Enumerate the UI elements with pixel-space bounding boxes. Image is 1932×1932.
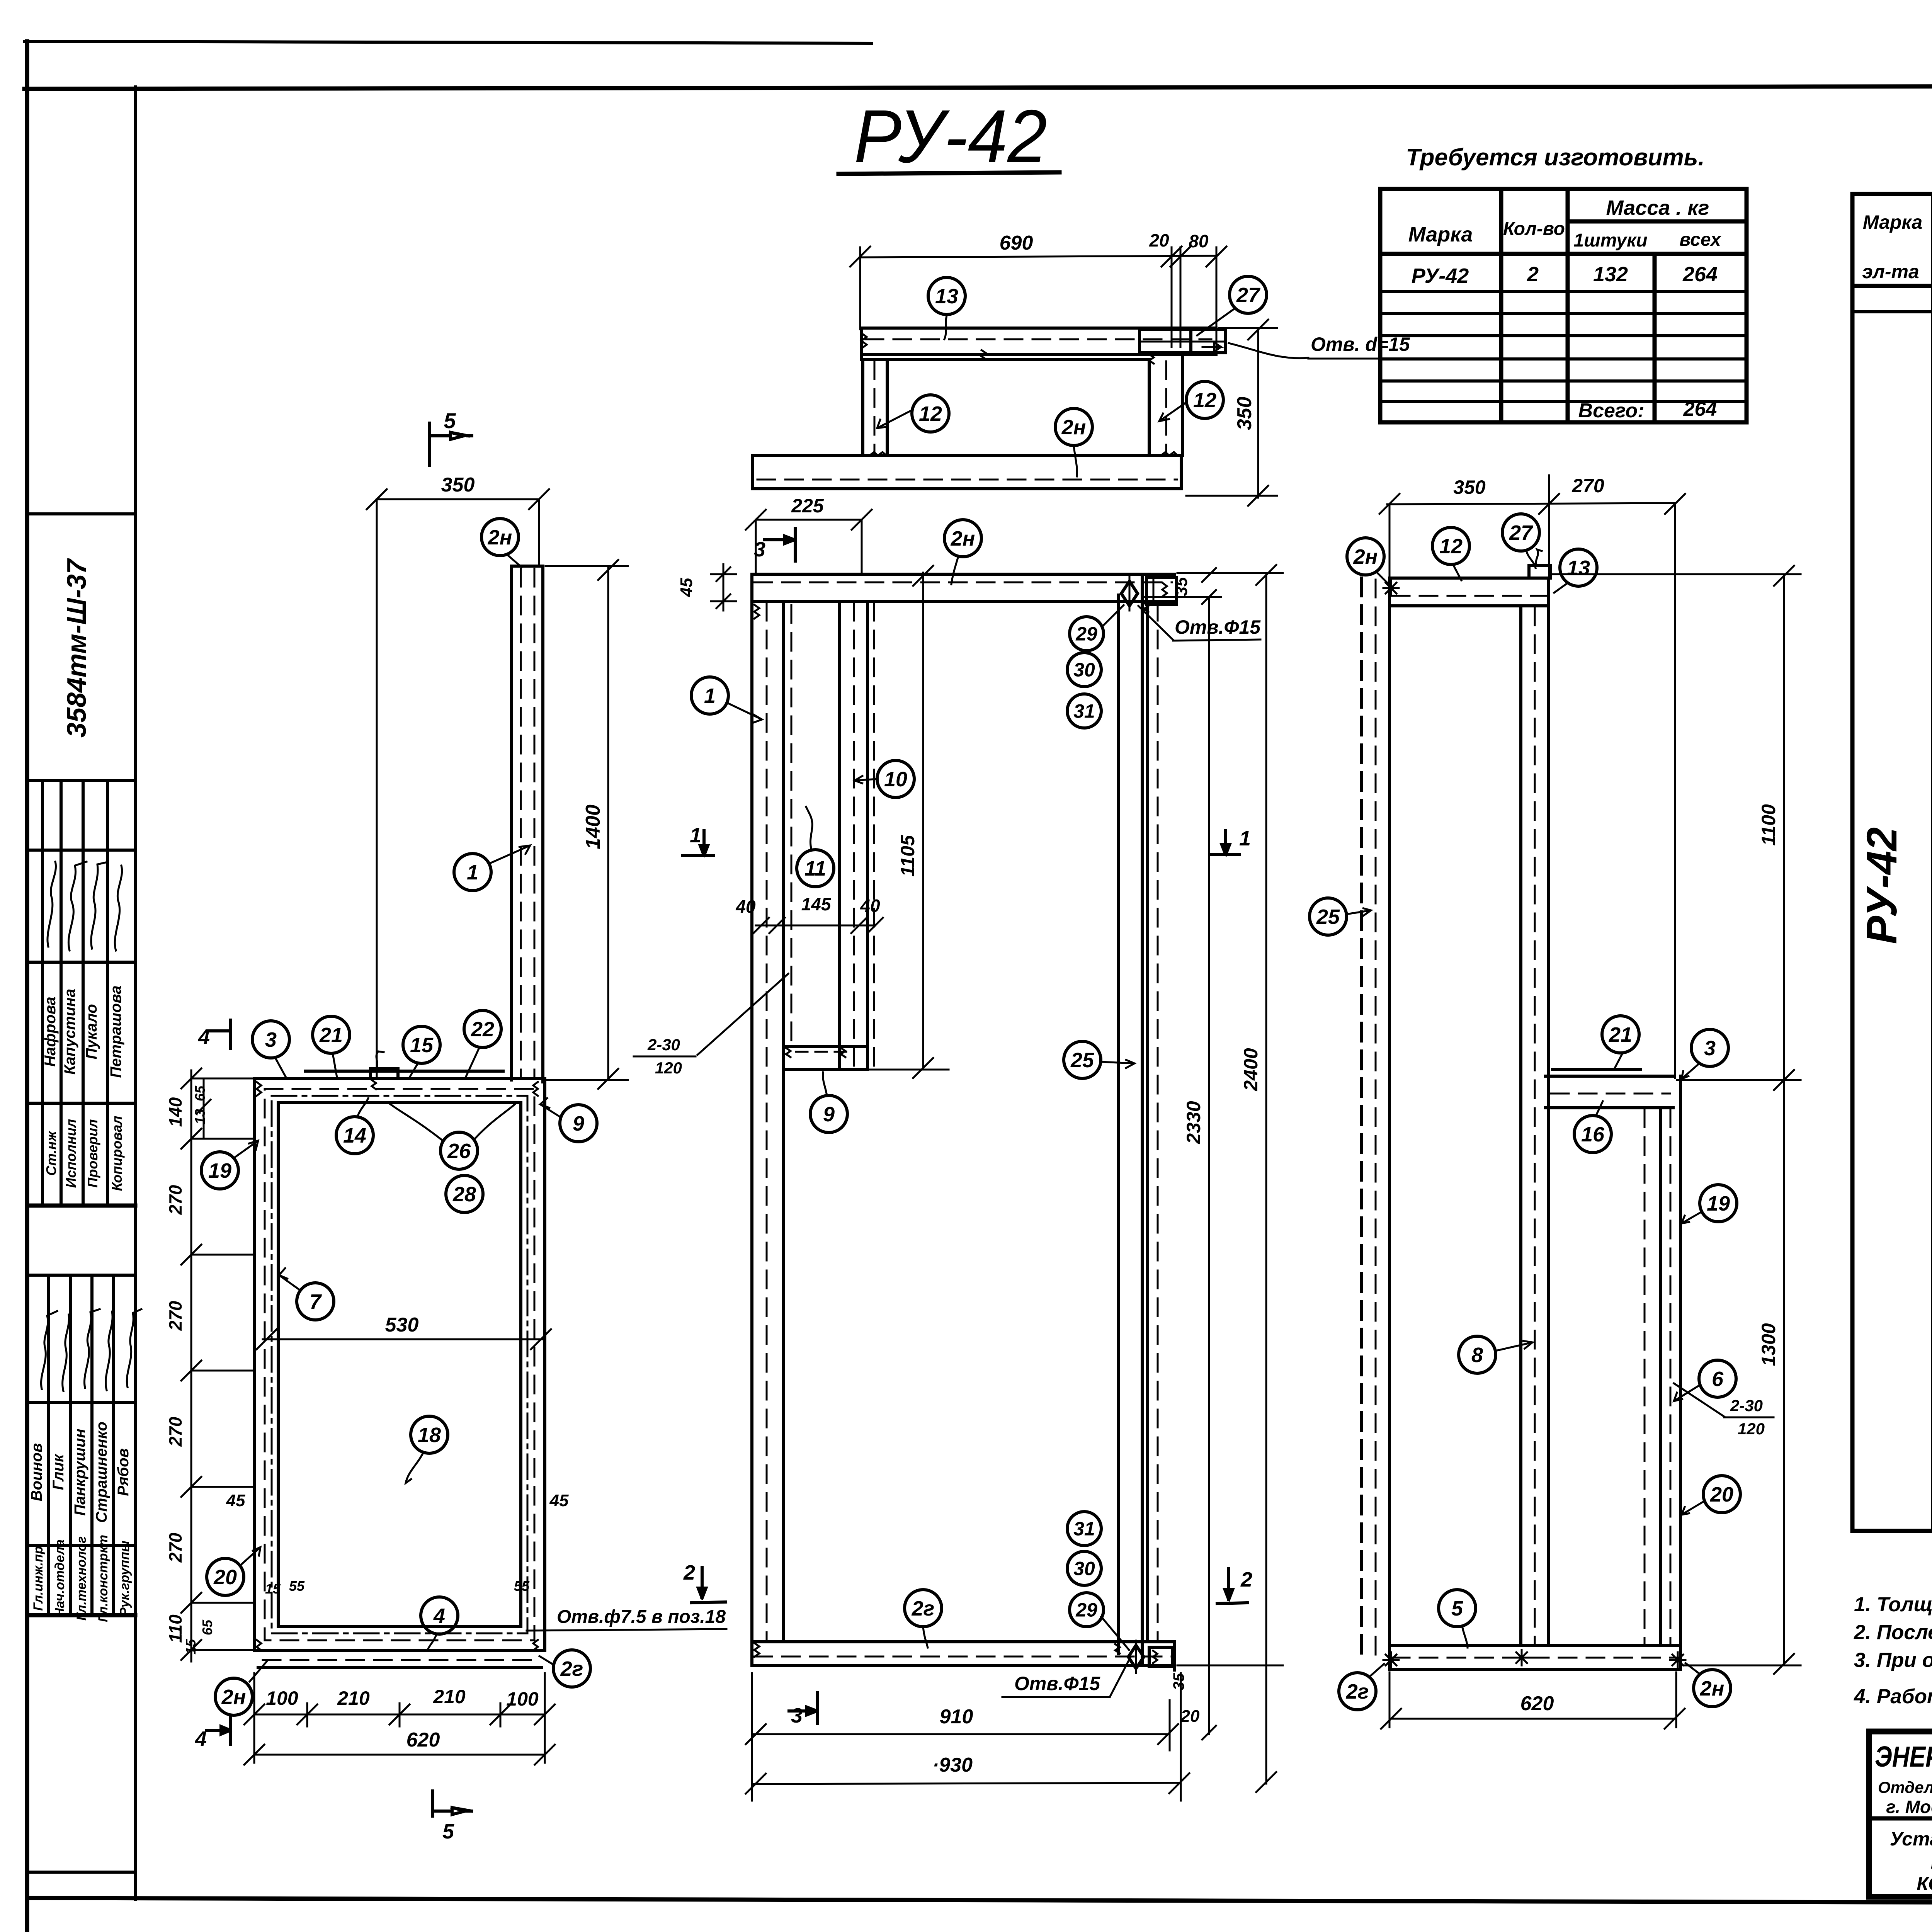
right view: label circle 2н bottom	[1694, 1670, 1731, 1707]
svg-text:12: 12	[1439, 535, 1463, 558]
middle view: weld note leader	[697, 974, 788, 1055]
svg-text:100: 100	[266, 1687, 298, 1709]
svg-text:40: 40	[860, 896, 880, 916]
svg-text:1. Толщина сварных швов: 1. Толщина сварных швов 5мм . Электроды …	[1854, 1593, 1932, 1616]
left view: label circle 2г	[553, 1650, 590, 1687]
middle view: label circles 31/30/29 bottom	[1067, 1512, 1101, 1546]
svg-text:Отв.Ф15: Отв.Ф15	[1014, 1673, 1100, 1694]
left view: label circle 1	[454, 854, 491, 891]
left stamp: upper signature table frame	[27, 849, 135, 852]
right view: dimension 620 bottom	[1389, 1718, 1676, 1720]
svg-text:20: 20	[1710, 1483, 1733, 1506]
left stamp: signature squiggle 5	[41, 1311, 57, 1389]
svg-text:270: 270	[1571, 475, 1604, 497]
left view: leader 2г	[539, 1656, 553, 1665]
right view: leader 3	[1682, 1063, 1699, 1079]
svg-text:20: 20	[213, 1566, 237, 1589]
right view: weld stars	[1383, 580, 1399, 596]
svg-text:264: 264	[1682, 263, 1718, 286]
middle view: bottom member top edge	[752, 1640, 1174, 1643]
right view: leader 25	[1346, 908, 1371, 916]
svg-text:1100: 1100	[1758, 804, 1779, 846]
svg-text:270: 270	[165, 1417, 185, 1447]
svg-text:110: 110	[165, 1614, 185, 1643]
svg-text:2н: 2н	[1061, 416, 1086, 439]
top view: hole note underline	[1308, 358, 1432, 360]
top view: leader for 12 left	[877, 410, 912, 428]
left stamp: signature squiggle 1	[48, 862, 56, 947]
left view: label circle 14	[336, 1117, 373, 1154]
svg-text:Исполнил: Исполнил	[63, 1119, 79, 1188]
middle view: leader 2н top	[951, 556, 958, 584]
right view: top dimension line 350/270	[1387, 503, 1675, 504]
middle view: top member bottom edge	[752, 600, 1174, 603]
right view: label circle 6	[1699, 1360, 1736, 1397]
svg-text:100: 100	[506, 1688, 539, 1710]
page frame bottom border	[27, 1898, 1932, 1904]
top view: beam pos13 top edge	[861, 327, 1216, 330]
left margin inner vertical line	[134, 87, 137, 1900]
right view: leader 19	[1682, 1212, 1702, 1223]
top view: leader for 12 right	[1159, 403, 1186, 421]
top view: label circle 12 right	[1186, 381, 1223, 418]
left view: label circle 26	[440, 1132, 478, 1169]
right view: member pos8 left edge	[1519, 606, 1522, 1646]
svg-text:КС86 - 50 -11У1.: КС86 - 50 -11У1.	[1917, 1873, 1932, 1895]
left view: dim 350 extension lines	[376, 499, 378, 1076]
svg-text:2г: 2г	[560, 1657, 583, 1680]
title block outer frame	[1869, 1731, 1932, 1897]
svg-text:Гл.констркт: Гл.констркт	[96, 1535, 111, 1622]
svg-text:2-30: 2-30	[1730, 1396, 1763, 1415]
middle view: leader 2г	[923, 1627, 928, 1648]
middle view: leader 29 bottom	[1101, 1617, 1129, 1650]
svg-text:ЭНЕРГОСЕТЬПРОЕКТ: ЭНЕРГОСЕТЬПРОЕКТ	[1875, 1740, 1932, 1773]
right view: dimension 1100 (rotated)	[1783, 574, 1785, 1665]
top view: dim extension lines	[859, 247, 861, 329]
title block left column divider	[1869, 1816, 1932, 1821]
svg-text:8: 8	[1471, 1344, 1483, 1367]
page outer border top edge line	[24, 41, 871, 43]
top view: left leg pos12 edges	[861, 359, 864, 456]
svg-text:5: 5	[442, 1820, 454, 1843]
middle view: dims 40/145/40	[756, 925, 875, 927]
middle view: top bolt diamond	[1121, 581, 1138, 606]
svg-text:40: 40	[735, 896, 756, 917]
right view: label circle 2н top	[1347, 538, 1384, 575]
right view: leader 2н top	[1376, 572, 1389, 584]
svg-text:14: 14	[343, 1124, 366, 1147]
right view: leader 21	[1614, 1053, 1623, 1069]
left view: leader 20	[240, 1547, 260, 1566]
svg-text:Всего:: Всего:	[1578, 400, 1645, 422]
right view: ledge top bar pos16 top edge	[1546, 1075, 1673, 1078]
drawing title underline	[838, 172, 1060, 174]
svg-text:2-30: 2-30	[647, 1036, 680, 1054]
left stamp: lower signature table column lines	[47, 1275, 50, 1615]
svg-text:Отделение Дальних передач: Отделение Дальних передач	[1878, 1778, 1932, 1796]
top view: base plate hidden line (dashed)	[757, 479, 1177, 481]
right view: top member top edge	[1389, 577, 1549, 580]
left view: label circle 9 right	[560, 1105, 597, 1142]
middle view: hole note leader bottom	[1110, 1658, 1130, 1697]
middle view: left member pos1 outer edge	[750, 574, 753, 1665]
middle view: dimension 930	[753, 1783, 1181, 1784]
svg-text:31: 31	[1073, 1518, 1095, 1540]
top view: leader for 2н	[1074, 446, 1077, 476]
left view: bottom flange line	[258, 1666, 542, 1669]
svg-text:·930: ·930	[932, 1754, 973, 1776]
middle view: label circle 2н top	[944, 520, 981, 557]
svg-text:Гл.технолог: Гл.технолог	[74, 1536, 89, 1621]
middle view: label circle 25	[1064, 1041, 1101, 1078]
top view: dim 350 extension lines	[1219, 327, 1277, 329]
svg-text:2: 2	[683, 1561, 695, 1584]
left view: bottom chain dimension line	[254, 1714, 545, 1716]
svg-text:2г: 2г	[912, 1597, 935, 1620]
right view: right member pos19 left edge	[1659, 1108, 1662, 1646]
left view: dim 1400 extension lines	[546, 565, 628, 567]
left view: frame inner rectangle	[278, 1102, 521, 1627]
svg-text:9: 9	[823, 1103, 835, 1126]
spec table outer frame	[1852, 194, 1932, 1531]
svg-text:13: 13	[935, 285, 958, 308]
left view: leader 4	[428, 1634, 437, 1649]
left view: post pos1 right edge	[541, 566, 544, 1082]
middle view: leader 29 top	[1102, 605, 1124, 627]
left view: frame outer rectangle	[254, 1078, 545, 1651]
svg-text:21: 21	[319, 1024, 343, 1047]
svg-text:4. Работать совместно с: 4. Работать совместно с листом КМ-Ш-23.	[1854, 1685, 1932, 1708]
svg-text:5: 5	[444, 408, 456, 433]
svg-text:Копировал: Копировал	[109, 1116, 125, 1191]
svg-text:15: 15	[183, 1639, 199, 1655]
middle view: label circle 2г bottom	[905, 1590, 942, 1627]
svg-text:910: 910	[940, 1706, 973, 1728]
right view: ledge top bar bottom edge	[1546, 1106, 1673, 1109]
middle view: dimension 2330 (rotated)	[1208, 597, 1210, 1734]
svg-text:Отв.Ф15: Отв.Ф15	[1175, 616, 1261, 638]
left view: weld marks	[257, 1082, 261, 1096]
middle view: bottom bolt diamond	[1128, 1645, 1144, 1668]
right view: frame bottom edge	[1389, 1668, 1680, 1671]
svg-text:Кол-во: Кол-во	[1503, 219, 1565, 239]
right view: label circle 25	[1310, 898, 1347, 935]
svg-text:Глик: Глик	[50, 1454, 67, 1490]
top view: beam pos13 hidden edge (dashed)	[866, 338, 1211, 340]
right view: member pos8 right edge	[1547, 578, 1550, 1646]
right view: leader 8	[1495, 1341, 1532, 1351]
svg-text:210: 210	[433, 1686, 466, 1708]
svg-text:19: 19	[208, 1159, 231, 1182]
svg-text:45: 45	[677, 578, 696, 597]
left view: top strap line pos21/22	[305, 1070, 503, 1073]
svg-text:13: 13	[1567, 556, 1590, 580]
middle view: member pos10 right edge	[866, 601, 869, 1070]
top view: label circle 27	[1230, 276, 1267, 313]
svg-text:21: 21	[1609, 1023, 1632, 1046]
svg-text:2. После установки марки: 2. После установки марки поз 25 убрать.	[1854, 1621, 1932, 1644]
svg-text:1300: 1300	[1758, 1323, 1779, 1366]
svg-text:20: 20	[1149, 230, 1169, 250]
svg-text:55: 55	[514, 1578, 530, 1594]
svg-text:1: 1	[690, 824, 701, 847]
middle view: dim 35 top right	[1142, 596, 1221, 598]
left view: label circle 2н top	[481, 519, 519, 556]
svg-text:2330: 2330	[1183, 1101, 1204, 1144]
top view: right leg pos12 edges	[1148, 359, 1151, 456]
svg-text:28: 28	[452, 1183, 476, 1206]
left view: leader 18	[406, 1452, 423, 1483]
svg-text:12: 12	[919, 402, 942, 425]
svg-text:1: 1	[704, 684, 716, 707]
middle view: top-right hole plate	[1146, 577, 1177, 604]
middle view: label circle 10	[877, 760, 914, 798]
middle view: leader 25	[1101, 1060, 1134, 1068]
middle view: dimension 1105 (rotated)	[922, 573, 924, 1070]
right view: top member bottom edge	[1389, 604, 1549, 607]
right view: leader 12 top	[1453, 564, 1461, 580]
middle view: member pos10 left edge	[838, 601, 841, 1070]
svg-text:2н: 2н	[221, 1685, 246, 1709]
svg-text:25: 25	[1316, 905, 1340, 929]
right view: leader 2г	[1371, 1664, 1384, 1675]
svg-text:29: 29	[1075, 1599, 1097, 1621]
svg-text:270: 270	[165, 1185, 185, 1215]
middle view: brace pos25 left edge	[1117, 595, 1120, 1654]
svg-text:Воинов: Воинов	[28, 1443, 45, 1502]
svg-text:18: 18	[418, 1423, 441, 1447]
middle view: frame top edge	[752, 573, 1174, 576]
manufacture table outer frame	[1380, 189, 1747, 422]
manufacture table column lines	[1499, 189, 1503, 422]
right view: leader 5	[1462, 1626, 1468, 1648]
right view: brace pos25 inner hidden edge	[1375, 580, 1377, 1657]
left stamp: bottom closing line	[27, 1871, 135, 1874]
top view: left leg pos12 hidden line	[874, 361, 876, 454]
manufacture table row lines	[1380, 290, 1747, 293]
right view: dim extension lines right	[1552, 573, 1801, 575]
top view: bracket pos27 inner lines	[1139, 341, 1226, 343]
svg-text:всех: всех	[1679, 230, 1722, 250]
middle view: bottom right hole plate	[1149, 1647, 1172, 1666]
svg-text:2400: 2400	[1240, 1048, 1262, 1091]
svg-text:Капустина: Капустина	[61, 989, 78, 1075]
right view: ledge bar hidden line	[1551, 1093, 1670, 1095]
svg-text:30: 30	[1073, 1558, 1095, 1580]
top view: dimension line 690/20/80	[860, 256, 1216, 257]
svg-text:690: 690	[1000, 232, 1033, 254]
svg-text:эл-та: эл-та	[1862, 261, 1919, 282]
svg-text:350: 350	[1453, 476, 1486, 498]
left view: leader 14	[357, 1098, 368, 1117]
left view: label circle 28	[446, 1175, 483, 1213]
svg-text:140: 140	[165, 1097, 185, 1127]
svg-text:264: 264	[1683, 398, 1717, 420]
right view: leader 27	[1526, 550, 1536, 568]
svg-text:1105: 1105	[897, 835, 918, 877]
left view: leader 2н top	[507, 554, 522, 567]
svg-text:270: 270	[165, 1301, 185, 1331]
svg-text:350: 350	[441, 474, 475, 496]
svg-text:31: 31	[1073, 701, 1095, 722]
top view: beam lower chord line	[865, 358, 1148, 361]
right view: label circle 16	[1574, 1116, 1611, 1153]
middle view: top member hidden line	[754, 582, 1172, 583]
right view: brace pos25 outer hidden edge	[1360, 578, 1363, 1658]
svg-text:65: 65	[192, 1085, 208, 1101]
svg-text:Пукало: Пукало	[83, 1004, 100, 1059]
right view: frame left edge	[1388, 578, 1391, 1669]
svg-text:РУ-42: РУ-42	[1412, 264, 1469, 287]
middle view: weld marks	[754, 605, 759, 619]
svg-text:35: 35	[1170, 1673, 1187, 1690]
svg-text:16: 16	[1581, 1123, 1605, 1146]
svg-text:1штуки: 1штуки	[1573, 230, 1647, 251]
right view: label circle 8	[1459, 1336, 1496, 1373]
middle view: frame right chord inner edge	[1146, 601, 1149, 1642]
svg-text:6: 6	[1712, 1367, 1724, 1391]
left view: frame hidden rectangle (dashed)	[265, 1089, 534, 1640]
left view: leader 3	[275, 1058, 286, 1077]
top view: label circle 12 left	[912, 395, 949, 432]
svg-text:3: 3	[265, 1028, 277, 1051]
svg-text:3584тм-Ш-37: 3584тм-Ш-37	[61, 558, 92, 738]
manufacture table header lines	[1568, 219, 1747, 224]
right view: label circle 5	[1439, 1590, 1476, 1627]
svg-text:10: 10	[884, 768, 907, 791]
svg-text:2г: 2г	[1346, 1680, 1369, 1703]
left view: label circle 2н bottom	[215, 1678, 252, 1715]
left view: hole note leader underline	[527, 1629, 726, 1631]
svg-text:55: 55	[289, 1578, 305, 1594]
middle view: member pos10 hidden line	[853, 603, 855, 1068]
svg-text:620: 620	[1520, 1692, 1554, 1715]
left stamp: signature squiggle 7	[84, 1309, 100, 1388]
svg-text:РУ-42: РУ-42	[1858, 827, 1906, 944]
svg-text:35: 35	[1172, 577, 1191, 596]
svg-text:РУ-42: РУ-42	[854, 94, 1047, 179]
svg-text:29: 29	[1075, 623, 1097, 645]
right view: bottom member hidden line	[1392, 1657, 1678, 1659]
left stamp: signature squiggle 8	[106, 1311, 112, 1390]
svg-text:270: 270	[165, 1532, 185, 1563]
svg-text:Страшненко: Страшненко	[93, 1422, 110, 1523]
svg-text:Масса . кг: Масса . кг	[1606, 196, 1709, 219]
svg-text:Рябов: Рябов	[115, 1448, 132, 1496]
svg-text:Марка: Марка	[1408, 223, 1473, 246]
svg-text:1: 1	[467, 861, 478, 884]
middle view: dimension 2400 (rotated)	[1265, 573, 1267, 1784]
middle view: bottom member hidden line	[754, 1656, 1172, 1658]
svg-text:120: 120	[655, 1059, 682, 1077]
left view: leader 22	[466, 1047, 480, 1077]
left view: post pos1 left edge	[510, 566, 513, 1080]
svg-text:350: 350	[1233, 397, 1256, 430]
top view: bracket arrow mark	[1202, 342, 1221, 352]
left view: label circle 21	[313, 1016, 350, 1053]
middle view: label circle 11	[797, 850, 834, 887]
middle view: dim 225 extension lines	[755, 520, 757, 573]
left stamp: upper signature table column lines	[41, 781, 44, 1206]
svg-text:2н: 2н	[488, 526, 512, 549]
svg-text:Проверил: Проверил	[85, 1119, 100, 1187]
svg-text:80: 80	[1189, 231, 1209, 251]
svg-text:Отв.ф7.5 в поз.18: Отв.ф7.5 в поз.18	[557, 1607, 726, 1627]
top view: beam pos13 left end cap	[860, 328, 863, 359]
left view: chain extension lines	[191, 1138, 255, 1140]
right view: leader 13	[1554, 583, 1568, 593]
left view: frame axis rectangle (dash-dot)	[272, 1096, 527, 1633]
svg-text:25: 25	[1070, 1049, 1094, 1072]
top view: weld marks	[861, 333, 867, 349]
svg-text:5: 5	[1451, 1597, 1463, 1620]
svg-text:2н: 2н	[951, 527, 975, 550]
svg-text:620: 620	[406, 1729, 440, 1751]
middle view: inner plate pos11 hidden line	[791, 605, 793, 1043]
svg-text:2н: 2н	[1353, 545, 1378, 568]
top view: hole note leader	[1229, 343, 1308, 358]
left view: bottom chain extension lines	[306, 1703, 308, 1726]
right view: top member hidden line	[1392, 595, 1546, 597]
left view: leader 19	[234, 1141, 258, 1158]
svg-text:г. Москва: г. Москва	[1886, 1797, 1932, 1817]
left view: section flag 5 top	[428, 423, 431, 466]
svg-text:65: 65	[199, 1619, 215, 1635]
left view: label circle 15	[403, 1026, 440, 1063]
svg-text:120: 120	[1738, 1420, 1765, 1438]
svg-text:7: 7	[310, 1290, 322, 1313]
svg-text:145: 145	[801, 894, 832, 914]
right view: label circle 27	[1502, 514, 1539, 551]
svg-text:15: 15	[410, 1034, 434, 1057]
top view: dimension 350 right side	[1257, 328, 1259, 498]
left view: left dimension chain line	[190, 1070, 192, 1662]
svg-text:210: 210	[337, 1687, 370, 1709]
left stamp: signature squiggle 2	[68, 862, 87, 951]
svg-text:4: 4	[198, 1026, 210, 1049]
svg-text:45: 45	[226, 1491, 245, 1510]
svg-text:Установка синхронных: Установка синхронных	[1890, 1828, 1932, 1850]
right view: label circle 20 right	[1703, 1476, 1740, 1513]
left view: label circle 19	[201, 1152, 238, 1189]
page frame top border	[24, 85, 1932, 89]
left view: leader 21	[333, 1053, 337, 1077]
svg-text:15: 15	[265, 1581, 281, 1597]
right view: leader 20	[1682, 1501, 1705, 1515]
left stamp: lower signature table frame	[27, 1274, 135, 1277]
svg-text:Марка: Марка	[1863, 211, 1922, 233]
right view: weld note leader right	[1674, 1383, 1724, 1417]
svg-text:Петрашова: Петрашова	[107, 985, 124, 1078]
left view: bottom hidden dashes	[263, 1659, 538, 1661]
right view: label circle 12 top	[1432, 527, 1469, 565]
middle view: right member hidden line	[1157, 603, 1159, 1640]
right view: ledge strap pos21 line	[1553, 1068, 1640, 1071]
svg-text:9: 9	[573, 1112, 584, 1135]
svg-text:26: 26	[447, 1139, 471, 1163]
svg-text:1400: 1400	[582, 804, 604, 849]
left stamp: signature squiggle 3	[91, 862, 107, 949]
right view: label circle 2г bottom	[1339, 1673, 1376, 1710]
middle view: member pos10 outer hidden line	[873, 603, 875, 1068]
right view: right member pos19 right edge	[1679, 1076, 1682, 1669]
right view: leader 2н	[1685, 1663, 1699, 1673]
page frame left border	[25, 41, 29, 1932]
svg-text:3: 3	[1704, 1037, 1716, 1060]
svg-text:Гл.инж.пр: Гл.инж.пр	[31, 1546, 46, 1611]
left view: leaders 26 (double)	[389, 1104, 443, 1141]
